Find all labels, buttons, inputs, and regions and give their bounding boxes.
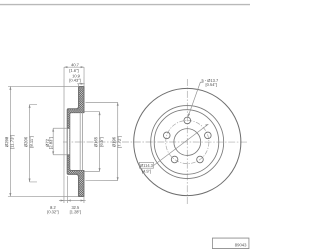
- lug hole lower-right: [197, 156, 204, 163]
- svg-text:[7.72"]: [7.72"]: [117, 136, 122, 148]
- dimension overall height 40.7: [64, 62, 84, 203]
- lug hole count label 5-13.7: [202, 78, 219, 87]
- lug hole upper-left: [163, 132, 170, 139]
- lug hole top: [184, 117, 191, 124]
- svg-text:[11.73"]: [11.73"]: [9, 135, 14, 149]
- dimension disc thickness 10.9: [69, 73, 84, 86]
- pad inner edge circle: [151, 106, 224, 179]
- svg-text:[6.5"]: [6.5"]: [99, 137, 104, 147]
- svg-text:89043: 89043: [235, 242, 247, 247]
- svg-text:Ø298: Ø298: [4, 136, 9, 147]
- bolt circle label 114.3 (boxed): [139, 162, 153, 173]
- svg-text:[0.32"]: [0.32"]: [47, 209, 58, 214]
- svg-text:[8.11"]: [8.11"]: [29, 136, 34, 148]
- dimension inner braking diameter 206: [23, 104, 37, 182]
- inner hat visible edges: [80, 113, 82, 171]
- svg-text:Ø114.3: Ø114.3: [140, 163, 154, 168]
- svg-text:Ø165: Ø165: [93, 136, 98, 147]
- center bore circle: [174, 129, 201, 156]
- title block with part number: [212, 238, 249, 249]
- svg-text:Ø206: Ø206: [23, 136, 28, 147]
- bolt circle (dash-dot): [166, 120, 209, 163]
- dimension center bore diameter 72: [45, 128, 68, 155]
- svg-text:[0.54"]: [0.54"]: [206, 82, 217, 87]
- leader from bolt circle label: [154, 124, 209, 165]
- horizontal centerline: [63, 141, 247, 143]
- lug hole upper-right: [205, 132, 212, 139]
- top rule: [0, 4, 250, 6]
- svg-text:[1.6"]: [1.6"]: [69, 68, 78, 73]
- leader to lug hole: [188, 82, 204, 117]
- dimension inset depth 32.5: [67, 196, 85, 214]
- lug hole lower-left: [171, 156, 178, 163]
- center bore opening in hat face: [67, 128, 70, 155]
- svg-text:[1.28"]: [1.28"]: [70, 209, 81, 214]
- outer diameter circle: [134, 88, 241, 195]
- svg-text:[4.5"]: [4.5"]: [142, 169, 151, 174]
- svg-text:Ø196: Ø196: [111, 136, 116, 147]
- dimension hat depth 8.2: [47, 176, 71, 214]
- dimension hat diameter 165: [84, 112, 103, 172]
- svg-text:[0.43"]: [0.43"]: [69, 78, 80, 83]
- dimension OD diameter 298: [4, 86, 78, 196]
- vertical centerline, front view: [186, 79, 188, 204]
- svg-text:[2.83"]: [2.83"]: [48, 137, 53, 149]
- hat outer edge circle: [154, 110, 219, 175]
- svg-text:40.7: 40.7: [71, 62, 80, 67]
- rotor cross-section (hatched): [67, 86, 84, 196]
- dimension pad inner diameter 196: [85, 102, 121, 180]
